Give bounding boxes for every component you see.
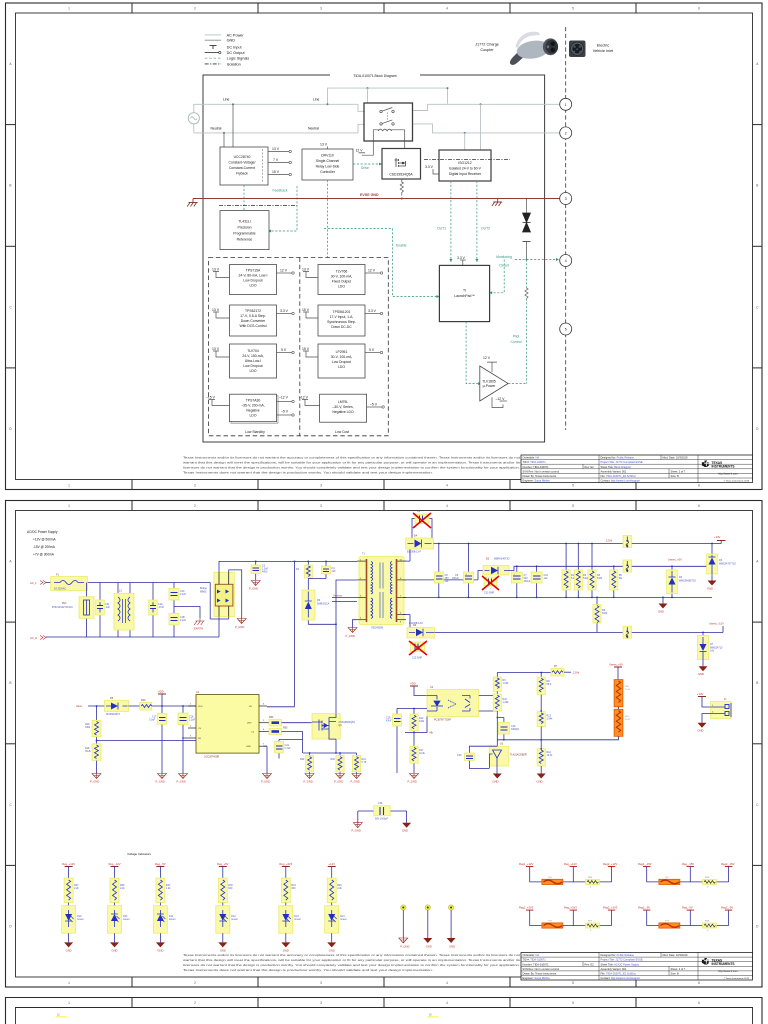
svg-text:MMSZ4689T1G: MMSZ4689T1G: [679, 580, 696, 583]
svg-text:–12 V: –12 V: [496, 397, 506, 401]
svg-text:+13V: +13V: [697, 692, 704, 696]
wire AC bottom rail: [46, 617, 219, 637]
svg-text:47nF: 47nF: [386, 720, 392, 723]
svg-text:LDO: LDO: [250, 414, 257, 418]
svg-text:R1: R1: [296, 568, 300, 571]
svg-text:EARTH: EARTH: [194, 627, 203, 631]
LED indicator Reg_+3V3: [279, 862, 302, 953]
svg-text:1: 1: [190, 704, 192, 706]
svg-text:TL431LI: TL431LI: [238, 220, 250, 224]
ground P_GND R18: [90, 774, 101, 784]
wire FB net: [182, 737, 188, 739]
ferrite FB4: [267, 716, 312, 726]
svg-text:AC_H: AC_H: [30, 636, 37, 640]
capacitor C21: [275, 740, 303, 759]
port AC_H: [30, 636, 46, 641]
svg-text:GND: GND: [283, 949, 289, 953]
ground earth mid: [492, 199, 502, 207]
pilot control label: [511, 334, 522, 344]
diode D2: [403, 558, 510, 580]
choke L3: [114, 583, 134, 638]
ferrite FB5: [267, 727, 303, 754]
svg-text:GND: GND: [220, 949, 226, 953]
svg-text:16V: 16V: [710, 650, 715, 653]
ground GND R14: [537, 774, 546, 784]
svg-text:LDO: LDO: [250, 284, 257, 288]
svg-text:7 V: 7 V: [273, 158, 279, 162]
svg-text:12Vb: 12Vb: [573, 671, 580, 675]
ground P_GND C21: [275, 759, 284, 779]
isolation dash line: [565, 27, 567, 430]
legend: [205, 33, 250, 66]
snubber cap DNP D2: [482, 576, 499, 595]
monitoring circuit net: [489, 255, 559, 294]
svg-text:R22: R22: [300, 758, 305, 761]
svg-text:LP2951: LP2951: [336, 350, 348, 354]
svg-text:1uF: 1uF: [544, 577, 549, 580]
svg-text:GND: GND: [449, 945, 455, 949]
svg-text:Precision: Precision: [238, 226, 252, 230]
varistor RV1: [52, 583, 94, 638]
primary zener D6P: [302, 590, 336, 624]
svg-text:R23: R23: [141, 699, 146, 702]
svg-text:Reg_-15V: Reg_-15V: [682, 862, 694, 866]
svg-text:75.0k: 75.0k: [625, 689, 631, 691]
svg-text:3.3 V: 3.3 V: [280, 309, 289, 313]
svg-text:R57: R57: [588, 921, 593, 923]
svg-text:EVSE GND: EVSE GND: [360, 193, 379, 197]
power +13V J1: [697, 692, 711, 707]
svg-text:Reg_-12V: Reg_-12V: [108, 862, 120, 866]
electric vehicle inlet label: [593, 44, 614, 53]
svg-text:LaunchPad™: LaunchPad™: [454, 294, 475, 298]
svg-text:3.3 V: 3.3 V: [457, 256, 466, 260]
svg-text:510k: 510k: [602, 612, 608, 615]
svg-text:Negative: Negative: [246, 409, 259, 413]
svg-text:Enable: Enable: [396, 244, 407, 248]
svg-text:GND: GND: [246, 746, 251, 748]
ground GND D3: [707, 581, 717, 591]
svg-text:PC357N7TJ00F: PC357N7TJ00F: [434, 719, 452, 722]
svg-text:P_GND: P_GND: [261, 780, 270, 784]
svg-text:30-V, 100-mA,: 30-V, 100-mA,: [331, 275, 353, 279]
testpoint TP3: [447, 905, 456, 949]
relay controller U_DRV110: [302, 143, 353, 180]
svg-text:–5 V: –5 V: [370, 403, 378, 407]
svg-text:GND: GND: [426, 945, 432, 949]
svg-text:13 V: 13 V: [320, 143, 328, 147]
svg-text:24-V, 80-mA, Low-I: 24-V, 80-mA, Low-I: [239, 274, 268, 278]
resistor R12: [410, 709, 425, 733]
svg-text:+12V: +12V: [329, 862, 336, 866]
capacitor C19: [386, 708, 427, 773]
resistor R61 orange: [614, 707, 631, 737]
wire 0V rail: [403, 597, 712, 599]
svg-text:Low Dropout: Low Dropout: [332, 360, 351, 364]
LDO TPS715A: [212, 265, 294, 295]
svg-text:620: 620: [228, 887, 233, 890]
svg-text:Neutral: Neutral: [308, 126, 319, 130]
svg-text:GND: GND: [698, 672, 704, 676]
svg-text:Reg1_+3V3: Reg1_+3V3: [519, 905, 534, 909]
wire relay to ISO line2: [413, 104, 560, 150]
svg-text:P_GND: P_GND: [249, 587, 258, 591]
TLV 12V supply: [483, 356, 497, 372]
svg-text:P_GND: P_GND: [408, 780, 417, 784]
svg-text:–15 V: –15 V: [206, 395, 216, 399]
ground P_GND C17: [156, 774, 167, 784]
circle node 4: [560, 255, 572, 267]
J1772 charge coupler label: [475, 43, 499, 52]
svg-text:UCC28740DR: UCC28740DR: [204, 756, 220, 759]
svg-text:Reg_+12V: Reg_+12V: [564, 862, 577, 866]
svg-text:Reg_+12V: Reg_+12V: [62, 862, 75, 866]
svg-text:Synchronous Step-: Synchronous Step-: [327, 320, 356, 324]
svg-text:.1uF: .1uF: [105, 606, 110, 609]
diode D9: [403, 615, 434, 639]
flyback controller U_UCC28740: [220, 147, 268, 185]
resistor R20: [331, 753, 345, 774]
svg-text:Reg2_+3V3: Reg2_+3V3: [603, 905, 618, 909]
UCC 13V output: [268, 147, 291, 153]
svg-text:750343638: 750343638: [371, 627, 384, 630]
svg-text:–30-V, Series,: –30-V, Series,: [332, 405, 353, 409]
svg-text:Constant-Current: Constant-Current: [229, 166, 255, 170]
svg-text:+12V @ 500mA: +12V @ 500mA: [33, 538, 57, 542]
svg-text:330k: 330k: [85, 726, 91, 729]
svg-text:Low Dropout: Low Dropout: [243, 364, 262, 368]
svg-text:13 V: 13 V: [212, 347, 220, 351]
zener D3: [707, 544, 737, 581]
svg-text:0.1uF: 0.1uF: [285, 747, 292, 750]
svg-text:C15 DNP: C15 DNP: [412, 657, 423, 660]
svg-text:OUT2: OUT2: [481, 227, 490, 231]
svg-text:Reg1_+12V: Reg1_+12V: [519, 862, 533, 866]
svg-text:Vehicle Inlet: Vehicle Inlet: [593, 49, 614, 53]
snubber cap C15 DNP: [409, 641, 427, 660]
svg-text:3: 3: [320, 1001, 322, 1005]
svg-text:2.94k: 2.94k: [547, 718, 554, 721]
wires UCC input taps: [224, 104, 233, 147]
resistor R3: [574, 544, 589, 597]
wire -15V rail: [434, 626, 723, 633]
svg-text:1.00k: 1.00k: [503, 701, 510, 704]
svg-text:Reg2_-5V: Reg2_-5V: [721, 905, 733, 909]
wire pin4 pgnd: [353, 620, 358, 628]
mosfet Q1: [312, 714, 355, 753]
svg-text:15 V: 15 V: [302, 347, 310, 351]
svg-text:2.2nF: 2.2nF: [180, 593, 187, 596]
svg-text:0: 0: [590, 887, 592, 889]
svg-text:1uF: 1uF: [445, 580, 450, 583]
svg-text:0: 0: [707, 887, 709, 889]
svg-text:R61: R61: [625, 716, 630, 718]
resistor R19: [85, 705, 101, 744]
svg-text:TIDA-010071 Block Diagram: TIDA-010071 Block Diagram: [353, 74, 396, 78]
svg-text:Green: Green: [169, 918, 176, 921]
ground earth left: [187, 199, 197, 207]
relay K1: [364, 103, 413, 141]
resistor R21: [352, 753, 366, 774]
svg-text:Green: Green: [123, 918, 130, 921]
svg-text:Down Converter: Down Converter: [241, 319, 266, 323]
svg-text:P_GND: P_GND: [400, 945, 409, 949]
svg-text:B1100B-13-F: B1100B-13-F: [409, 622, 424, 625]
OUT2 net: [475, 181, 490, 262]
svg-text:Monitoring: Monitoring: [496, 255, 512, 259]
svg-text:49.9k: 49.9k: [625, 719, 631, 721]
ground P_GND R17: [408, 774, 419, 784]
svg-text:0: 0: [707, 930, 709, 932]
UCC 15V output: [268, 170, 291, 176]
resistor R23: [129, 699, 197, 710]
power Usens tap: [609, 663, 623, 680]
svg-text:Negative LDO: Negative LDO: [332, 410, 354, 414]
svg-text:2.2uF: 2.2uF: [189, 719, 196, 722]
svg-text:GND: GND: [329, 949, 335, 953]
comparator U_TLV1805: [480, 366, 508, 401]
resistor R9: [493, 673, 509, 695]
resistor R14: [537, 748, 553, 774]
testpoint TP2: [423, 905, 432, 949]
circle node 5: [560, 323, 572, 335]
LED indicator Reg_-12V: [108, 862, 131, 953]
svg-text:Reg_-5V: Reg_-5V: [682, 905, 693, 909]
pilot series resistor: [525, 260, 528, 384]
svg-text:Reference: Reference: [237, 238, 253, 242]
svg-text:J2: J2: [57, 1014, 60, 1017]
svg-text:HV: HV: [249, 706, 253, 708]
shunt U3 TL431: [489, 743, 527, 774]
svg-text:Green: Green: [231, 918, 238, 921]
capacitor C7: [511, 566, 531, 597]
svg-text:FB5: FB5: [283, 727, 288, 730]
svg-text:5 V: 5 V: [369, 348, 375, 352]
ground P_GND T1: [346, 628, 358, 639]
svg-text:Q1: Q1: [339, 724, 343, 727]
CSD source resistor: [400, 179, 403, 200]
svg-text:MBRA340T3G: MBRA340T3G: [494, 558, 510, 561]
wire R61 to fb: [497, 736, 618, 740]
svg-text:12 V: 12 V: [368, 269, 376, 273]
svg-text:GND: GND: [707, 587, 713, 591]
svg-text:DC Output: DC Output: [227, 51, 246, 55]
svg-text:P_GND: P_GND: [90, 780, 99, 784]
svg-text:510k: 510k: [597, 577, 603, 580]
svg-text:GND: GND: [227, 39, 236, 43]
svg-text:Line: Line: [223, 98, 230, 102]
svg-text:Isolation: Isolation: [227, 62, 241, 66]
svg-text:FB8: FB8: [548, 921, 553, 923]
svg-text:LDO: LDO: [338, 285, 345, 289]
svg-text:J1772 Charge: J1772 Charge: [475, 43, 499, 47]
wire +5V rail: [509, 565, 712, 570]
wire Q1 source node: [303, 752, 357, 754]
svg-text:U2: U2: [430, 686, 434, 689]
connector J5 label: [428, 1014, 439, 1018]
svg-text:2.2nF: 2.2nF: [180, 619, 187, 622]
capacitor C1A: [149, 583, 165, 638]
svg-text:4: 4: [446, 1001, 448, 1005]
LED indicator +12V: [325, 862, 348, 953]
svg-text:AC Power: AC Power: [227, 33, 245, 37]
svg-text:13 V: 13 V: [302, 267, 310, 271]
svg-text:Constant-Voltage/: Constant-Voltage/: [229, 161, 256, 165]
svg-text:FB9: FB9: [665, 921, 670, 923]
earth ground: [174, 607, 205, 631]
svg-text:Reg1_-5V: Reg1_-5V: [638, 905, 650, 909]
svg-text:3300pF: 3300pF: [511, 728, 520, 731]
relay coil wires: [356, 130, 405, 155]
capacitor C1B: [169, 613, 187, 637]
svg-text:13 V: 13 V: [272, 147, 280, 151]
svg-text:TPS561201: TPS561201: [333, 310, 351, 314]
svg-text:SMBJ91CA: SMBJ91CA: [317, 603, 330, 606]
AC source: [188, 104, 199, 132]
svg-text:Sheet Title: AC-DC Power Suppl: Sheet Title: AC-DC Power Supply: [601, 962, 640, 966]
svg-text:15 V: 15 V: [302, 308, 310, 312]
wire fb node: [470, 746, 498, 754]
svg-text:12 V: 12 V: [483, 356, 491, 360]
svg-text:Relay Low-Side: Relay Low-Side: [316, 165, 340, 169]
snubber R1: [296, 561, 312, 591]
sheet notes: [27, 530, 58, 557]
svg-text:AC_L: AC_L: [30, 581, 37, 585]
svg-text:T1: T1: [362, 553, 365, 556]
svg-text:4: 4: [565, 259, 567, 263]
svg-text:Programmable: Programmable: [233, 232, 255, 236]
svg-text:50V 1000pF: 50V 1000pF: [375, 818, 389, 821]
svg-text:–12 V: –12 V: [279, 395, 289, 399]
snubber cap C9 DNP: [412, 510, 432, 544]
svg-text:AC/DC Power Supply: AC/DC Power Supply: [27, 530, 58, 534]
feedback net: [268, 186, 297, 233]
svg-text:TPS715A: TPS715A: [246, 269, 261, 273]
svg-text:2: 2: [190, 726, 192, 728]
svg-text:P_GND: P_GND: [304, 780, 313, 784]
svg-text:2: 2: [194, 1001, 196, 1005]
net Vfb: [405, 717, 434, 737]
svg-text:TLV704: TLV704: [247, 349, 259, 353]
svg-text:13 V: 13 V: [212, 267, 220, 271]
resistor R6: [593, 597, 608, 633]
LDO LM79L: [299, 394, 384, 422]
svg-text:Reg_+3V3: Reg_+3V3: [279, 862, 292, 866]
svg-text:Usens_-15V: Usens_-15V: [709, 622, 724, 626]
svg-text:6: 6: [263, 704, 265, 706]
svg-text:10.0k: 10.0k: [419, 752, 426, 755]
wire AC top rail: [46, 583, 229, 620]
connector J1: [711, 698, 732, 719]
svg-text:Reg2_-15V: Reg2_-15V: [721, 862, 735, 866]
svg-text:Coupler: Coupler: [480, 48, 494, 52]
diode D4: [403, 535, 434, 562]
TI LaunchPad: [439, 256, 489, 322]
resistor R18: [85, 744, 101, 774]
svg-text:C30: C30: [457, 754, 462, 757]
LDO TLV704: [212, 344, 294, 378]
svg-text:VDD: VDD: [410, 682, 416, 686]
svg-text:J1: J1: [724, 698, 727, 701]
svg-text:Logic Signals: Logic Signals: [227, 57, 250, 61]
svg-text:VDD: VDD: [198, 706, 203, 708]
ground GND J1: [698, 723, 707, 733]
svg-text:17-V Input, 1-A,: 17-V Input, 1-A,: [330, 315, 354, 319]
svg-text:15 V: 15 V: [272, 170, 280, 174]
resistor R10: [493, 694, 509, 746]
svg-text:10.1k: 10.1k: [547, 754, 554, 757]
svg-text:P_GND: P_GND: [156, 780, 165, 784]
svg-text:F1: F1: [56, 574, 59, 577]
svg-text:Usens_+5V: Usens_+5V: [609, 663, 623, 667]
svg-text:R58: R58: [705, 877, 710, 879]
svg-text:MURS160T3: MURS160T3: [106, 713, 120, 716]
resistor R2: [562, 544, 577, 597]
drive net: [353, 163, 382, 170]
ground P_GND C28: [352, 823, 363, 833]
svg-text:5 V: 5 V: [281, 348, 287, 352]
jumper J rail2: [623, 560, 632, 572]
MOSFET Q_CSD19534Q5A: [382, 149, 421, 180]
svg-text:FB6: FB6: [548, 877, 553, 879]
svg-text:3.3 V: 3.3 V: [425, 165, 434, 169]
svg-text:L3: L3: [119, 590, 122, 593]
svg-text:180uF: 180uF: [452, 577, 459, 580]
net tie group +3V3: [519, 905, 618, 932]
svg-text:FB4: FB4: [269, 716, 274, 719]
svg-text:Low Standby: Low Standby: [245, 430, 265, 434]
svg-text:DRV110: DRV110: [321, 154, 334, 158]
svg-text:P_GND: P_GND: [177, 780, 186, 784]
snubber C4: [322, 561, 337, 579]
svg-text:D8: D8: [110, 697, 114, 700]
capacitor C20: [497, 717, 520, 740]
ground P_GND C18: [177, 774, 188, 784]
svg-text:Neutral: Neutral: [211, 126, 222, 130]
LDO dashed group box: [209, 258, 389, 436]
svg-text:TLV766: TLV766: [336, 270, 348, 274]
svg-text:MMSZ4707T1G: MMSZ4707T1G: [719, 563, 736, 566]
svg-text:Reg1_-15V: Reg1_-15V: [638, 862, 652, 866]
svg-text:GND: GND: [66, 949, 72, 953]
svg-text:TL431ACDBZR: TL431ACDBZR: [510, 754, 527, 757]
svg-text:3: 3: [565, 197, 567, 201]
svg-text:39.2k: 39.2k: [85, 750, 92, 753]
svg-text:Drive: Drive: [361, 166, 369, 170]
capacitor C12: [531, 566, 548, 597]
svg-text:Control: Control: [511, 340, 522, 344]
LDO TPS7A30: [206, 394, 294, 423]
svg-text:MB6S: MB6S: [200, 591, 207, 594]
svg-text:B72214S0271K101: B72214S0271K101: [52, 606, 73, 609]
svg-text:Voltage Indicators: Voltage Indicators: [127, 852, 151, 856]
svg-text:CS: CS: [251, 732, 255, 734]
LED indicator Reg_+5V: [216, 862, 239, 953]
svg-text:330uF: 330uF: [524, 580, 531, 583]
net Vsense: [332, 594, 357, 598]
svg-text:Vsense: Vsense: [333, 594, 342, 598]
power VDD: [158, 690, 166, 706]
shunt reference U_TL431LI: [220, 211, 269, 250]
svg-text:24-V, 150-mA,: 24-V, 150-mA,: [242, 354, 264, 358]
optocoupler U2: [427, 686, 485, 722]
svg-text:Isolated 24-V to 60-V: Isolated 24-V to 60-V: [449, 167, 482, 171]
svg-text:Low Cost: Low Cost: [335, 430, 349, 434]
svg-text:1.2k: 1.2k: [166, 887, 171, 890]
svg-text:17-V, 0.5-A Step-: 17-V, 0.5-A Step-: [240, 314, 266, 318]
digital input receiver U_ISO1212: [424, 150, 510, 181]
svg-text:Green: Green: [77, 918, 84, 921]
